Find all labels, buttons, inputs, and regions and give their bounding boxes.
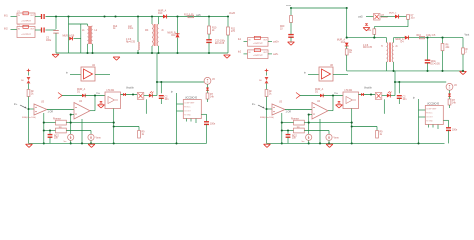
wire — [374, 26, 408, 28]
junction — [86, 52, 88, 54]
op-amp A (ch A) — [34, 104, 47, 115]
junction (ch A) — [113, 122, 115, 124]
source I2 (ch A) — [88, 134, 94, 140]
source V4 (ch B) — [446, 83, 453, 90]
junction — [346, 7, 348, 9]
wire sense (ch A) — [157, 81, 204, 83]
svg-text:OUT: OUT — [263, 52, 268, 54]
svg-text:7t: 7t — [381, 45, 383, 48]
svg-text:IN: IN — [249, 52, 251, 54]
svg-text:MUR_C: MUR_C — [389, 13, 397, 15]
wire (ch B) — [304, 122, 351, 124]
svg-text:2t: 2t — [162, 29, 164, 32]
wire (ch B) — [448, 120, 450, 127]
junction (ch B) — [287, 129, 289, 131]
capacitor C10 — [206, 40, 212, 43]
svg-text:out5-: out5- — [273, 53, 279, 56]
wire (ch A) — [28, 83, 30, 89]
wire — [158, 46, 160, 53]
connector J4 — [248, 49, 269, 59]
wire (ch B) — [351, 109, 353, 144]
diode D6 (ch A) — [27, 77, 31, 83]
svg-text:1 OR: 1 OR — [286, 111, 292, 113]
svg-text:COMP VREF: COMP VREF — [184, 103, 194, 105]
wire rail3 — [347, 70, 463, 72]
op-amp B (ch B) — [312, 103, 328, 120]
svg-text:in: in — [304, 73, 307, 75]
zener D12 — [365, 23, 368, 25]
wire (ch A) — [90, 140, 92, 143]
wire (ch B) — [328, 131, 330, 135]
wire (ch B) — [449, 96, 451, 99]
wire — [87, 44, 89, 53]
wire (ch B) — [323, 95, 343, 97]
wire (ch A) — [206, 124, 208, 143]
wire (ch B) — [308, 115, 310, 123]
wire (ch B) — [285, 109, 312, 111]
wire — [74, 38, 81, 40]
wire — [399, 16, 407, 18]
IC pin stub (ch A) — [186, 119, 188, 122]
wire (ch B) — [308, 140, 310, 143]
svg-text:U4: U4 — [317, 101, 321, 103]
junction (ch A) — [156, 81, 158, 83]
wire (ch B) — [398, 82, 400, 93]
svg-text:Vout/ok: Vout/ok — [126, 87, 135, 90]
wire (ch A) — [121, 94, 138, 96]
svg-text:100n: 100n — [210, 124, 216, 126]
wire (ch A) — [156, 82, 158, 96]
junction — [157, 52, 159, 54]
wire bottom rail (ch A) — [29, 142, 207, 144]
wire (ch A) — [70, 115, 72, 123]
svg-text:CS OUT: CS OUT — [426, 117, 432, 119]
svg-text:1k: 1k — [113, 28, 116, 30]
wire (ch A) — [70, 140, 72, 143]
wire (ch A) — [152, 95, 157, 97]
ground — [288, 42, 295, 45]
wire — [347, 37, 387, 39]
svg-text:FB VCC: FB VCC — [426, 113, 433, 115]
svg-text:1k: 1k — [142, 134, 145, 136]
junction — [103, 15, 105, 17]
junction (ch B) — [351, 125, 353, 127]
svg-text:RT GND: RT GND — [426, 121, 433, 123]
wire — [346, 55, 348, 71]
zener D2 (ch A) — [99, 101, 102, 103]
wire (ch A) — [207, 90, 209, 93]
wire (ch A) — [28, 97, 30, 144]
svg-text:2t: 2t — [396, 45, 398, 48]
wire bottom rail — [56, 52, 228, 54]
svg-text:10n: 10n — [403, 99, 408, 101]
wire (ch A) — [206, 114, 208, 121]
junction — [208, 52, 210, 54]
diode D3 (ch A) — [123, 93, 126, 96]
connector J2 — [17, 25, 35, 37]
wire — [69, 23, 88, 25]
IC pin stub (ch A) — [177, 103, 184, 105]
svg-text:1k: 1k — [349, 52, 352, 54]
wire — [46, 29, 57, 31]
wire rail2 — [394, 37, 464, 39]
transformer T1 — [88, 26, 93, 44]
svg-text:jn: jn — [170, 91, 174, 93]
IC U1 (ch B) — [425, 106, 443, 125]
wire (ch A) — [66, 130, 91, 132]
ground — [224, 55, 231, 58]
wire — [290, 37, 292, 41]
ground (ch B) — [326, 144, 333, 147]
svg-text:U4: U4 — [79, 101, 83, 103]
svg-text:Vsns: Vsns — [334, 138, 340, 140]
junction (ch B) — [265, 108, 267, 110]
wire (ch A) — [28, 72, 30, 75]
svg-text:V2: V2 — [454, 85, 458, 87]
junction — [441, 37, 443, 39]
wire — [80, 24, 82, 53]
LED arrows (ch A) — [149, 91, 154, 97]
svg-text:IN: IN — [249, 40, 251, 42]
wire — [407, 19, 409, 26]
resistor Rs1 (ch A) — [56, 120, 67, 125]
wire (ch B) — [267, 108, 273, 110]
svg-text:D6: D6 — [21, 80, 25, 82]
IC pin stub (ch B) — [432, 125, 434, 128]
wire (ch B) — [282, 130, 294, 132]
IC pin stub (ch A) — [195, 119, 197, 124]
svg-text:IN: IN — [18, 15, 20, 17]
svg-text:D4: D4 — [401, 42, 405, 44]
svg-text:SINE(0 5m 100k): SINE(0 5m 100k) — [260, 117, 274, 119]
resistor R10 — [208, 26, 211, 34]
wire — [427, 63, 429, 71]
wire (ch A) — [70, 123, 72, 135]
wire (ch B) — [308, 123, 310, 135]
svg-text:10k: 10k — [54, 138, 59, 140]
junction — [176, 52, 178, 54]
optocoupler U7 — [374, 14, 381, 21]
junction — [137, 15, 139, 17]
junction — [91, 52, 93, 54]
wire — [268, 41, 272, 43]
svg-text:10k: 10k — [292, 138, 297, 140]
IC out stub (ch A) — [201, 113, 206, 115]
wire — [227, 35, 229, 53]
resistor Rs2 (ch A) — [56, 128, 67, 133]
connector J3 — [248, 36, 269, 46]
svg-text:L1: L1 — [82, 30, 85, 32]
svg-text:0.3m: 0.3m — [128, 28, 133, 30]
junction (ch A) — [90, 142, 92, 144]
wire (ch A) — [207, 84, 209, 87]
junction (ch B) — [328, 142, 330, 144]
wire — [177, 38, 179, 53]
op-amp B (ch A) — [74, 103, 90, 120]
svg-text:+OUTPUT: +OUTPUT — [21, 21, 31, 23]
svg-text:V2: V2 — [212, 79, 216, 81]
svg-text:+OUTPUT: +OUTPUT — [253, 55, 263, 57]
diode D11 — [175, 34, 179, 38]
junction (ch A) — [70, 114, 72, 116]
svg-text:LT1431: LT1431 — [107, 90, 115, 92]
zener D2 (ch B) — [337, 101, 340, 103]
IC out stub (ch B) — [443, 119, 448, 121]
svg-text:Vout: Vout — [465, 33, 470, 36]
resistor R9 (ch B) — [376, 131, 379, 139]
svg-text:1 OR: 1 OR — [48, 111, 54, 113]
wire sense (ch B) — [395, 81, 446, 83]
junction (ch A) — [70, 122, 72, 124]
wire — [244, 53, 248, 55]
junction — [208, 15, 210, 17]
junction (ch A) — [113, 125, 115, 127]
wire (ch B) — [328, 110, 333, 112]
wire (ch A) — [44, 130, 56, 132]
resistor R16 — [420, 36, 425, 38]
svg-text:D6: D6 — [259, 80, 263, 82]
wire (ch B) — [304, 130, 329, 132]
wire — [333, 74, 348, 76]
svg-text:14k: 14k — [452, 102, 457, 104]
svg-text:L2: L2 — [95, 30, 98, 32]
junction — [176, 15, 178, 17]
svg-text:2k: 2k — [212, 30, 215, 32]
wire — [208, 34, 210, 40]
svg-text:100u: 100u — [46, 40, 52, 42]
IC pin stub (ch B) — [437, 125, 439, 130]
ground — [460, 71, 467, 74]
wire — [208, 17, 210, 27]
junction — [373, 37, 375, 39]
svg-text:+24v: +24v — [286, 5, 292, 7]
svg-text:In+: In+ — [335, 93, 339, 95]
wire (ch B) — [382, 95, 387, 97]
wire — [158, 17, 160, 25]
diode D14 — [345, 43, 349, 46]
wire (ch B) — [281, 113, 283, 143]
wire (ch B) — [328, 140, 330, 143]
junction — [55, 15, 57, 17]
svg-text:D1: D1 — [315, 92, 319, 94]
junction (ch A) — [132, 93, 134, 95]
svg-text:5m: 5m — [302, 141, 305, 143]
junction — [441, 70, 443, 72]
inductor Lpri — [138, 42, 139, 50]
LED arrows (ch B) — [387, 91, 392, 97]
svg-text:In+: In+ — [14, 104, 18, 106]
svg-text:R2=0.35: R2=0.35 — [363, 47, 373, 49]
wire — [393, 38, 395, 43]
resistor R7 (ch B) — [448, 99, 451, 105]
resistor Rs1 (ch B) — [294, 120, 305, 125]
svg-text:tk1: tk1 — [238, 38, 242, 41]
wire (ch A) — [47, 109, 74, 111]
wire (ch B) — [332, 96, 334, 111]
wire — [427, 38, 429, 60]
junction (ch B) — [319, 142, 321, 144]
IC pin stub (ch B) — [419, 109, 426, 111]
IC pin stub (ch A) — [177, 110, 184, 112]
resistor R6 — [441, 44, 444, 51]
wire (ch B) — [300, 95, 320, 97]
wire (ch A) — [138, 127, 140, 131]
svg-text:+OUTPUT: +OUTPUT — [21, 34, 31, 36]
capacitor C5 (ch A) — [204, 122, 209, 125]
wire — [55, 33, 57, 53]
op-amp B gnd pin (ch B) — [319, 119, 321, 143]
capacitor C4 (ch B) — [397, 96, 402, 99]
wire (ch A) — [71, 114, 74, 116]
junction — [346, 37, 348, 39]
wire — [268, 53, 272, 55]
ground (ch A) — [98, 105, 105, 108]
svg-text:Vout/ok: Vout/ok — [364, 87, 373, 90]
wire — [156, 53, 158, 82]
svg-text:10n: 10n — [165, 99, 170, 101]
wire (ch B) — [287, 131, 289, 135]
wire — [92, 44, 94, 53]
svg-text:In+: In+ — [252, 104, 256, 106]
wire — [373, 34, 375, 37]
wire — [11, 29, 18, 31]
wire (ch A) — [94, 96, 96, 111]
junction (ch B) — [351, 142, 353, 144]
op-amp U6 — [319, 67, 333, 81]
junction — [227, 15, 229, 17]
junction (ch A) — [43, 122, 45, 124]
svg-text:out5: out5 — [358, 15, 363, 18]
svg-text:Vsns: Vsns — [96, 138, 102, 140]
svg-text:OUT: OUT — [30, 29, 35, 31]
diode D5 (ch B) — [448, 94, 451, 97]
svg-text:1k: 1k — [269, 93, 272, 95]
wire (ch A) — [29, 108, 35, 110]
resistor R14 — [407, 15, 410, 20]
IC pin stub (ch B) — [428, 125, 430, 128]
arrow out (ch B) — [296, 93, 300, 99]
junction (ch B) — [281, 129, 283, 131]
capacitor C11 — [288, 35, 294, 38]
junction (ch B) — [281, 142, 283, 144]
wire (ch A) — [145, 99, 147, 114]
resistor R18 — [345, 49, 348, 55]
svg-text:+OUTPUT: +OUTPUT — [253, 43, 263, 45]
wire (ch B) — [449, 105, 451, 108]
source I1 (ch B) — [306, 134, 312, 140]
junction (ch B) — [351, 122, 353, 124]
capacitor C8 (ch B) — [286, 135, 291, 138]
svg-text:EC=0.05: EC=0.05 — [431, 63, 441, 65]
ground (ch B) — [336, 105, 343, 108]
junction — [426, 70, 428, 72]
svg-text:COMP VREF: COMP VREF — [426, 109, 436, 111]
svg-text:D1: D1 — [77, 92, 81, 94]
junction (ch B) — [281, 122, 283, 124]
wire — [386, 62, 388, 71]
wire — [346, 8, 348, 38]
svg-text:jn: jn — [412, 97, 416, 99]
diode D6 (ch B) — [265, 77, 269, 83]
svg-text:2: 2 — [466, 51, 468, 53]
ground (ch A) — [26, 144, 33, 147]
ground — [363, 28, 370, 31]
wire — [151, 46, 153, 53]
IC U1 (ch A) — [183, 100, 201, 119]
svg-text:U3: U3 — [279, 102, 283, 104]
capacitor C3 — [53, 31, 59, 34]
wire (ch B) — [449, 90, 451, 93]
capacitor C2 — [42, 28, 45, 33]
wire — [442, 51, 444, 71]
svg-text:in: in — [66, 73, 69, 75]
svg-text:OUT: OUT — [263, 40, 268, 42]
resistor Rb2 (ch A) — [27, 90, 30, 97]
svg-text:C14y 0.5: C14y 0.5 — [426, 35, 436, 37]
diode D3 (ch B) — [361, 93, 364, 96]
svg-text:OUT: OUT — [30, 15, 35, 17]
resistor Rs2 (ch B) — [294, 128, 305, 133]
svg-text:FB VCC: FB VCC — [184, 107, 191, 109]
diode D13 — [395, 14, 399, 18]
wire (ch B) — [359, 94, 376, 96]
wire (ch A) — [160, 98, 162, 104]
wire (ch B) — [418, 99, 420, 143]
junction (ch B) — [332, 94, 334, 96]
wire (ch A) — [44, 122, 56, 124]
svg-text:EC=0.05: EC=0.05 — [215, 43, 225, 45]
wire (ch B) — [390, 95, 395, 97]
svg-text:10u: 10u — [411, 18, 416, 20]
diode D9 — [69, 37, 72, 41]
wire (ch B) — [282, 122, 294, 124]
junction (ch A) — [27, 108, 29, 110]
IC pin stub (ch A) — [190, 119, 192, 122]
wire — [373, 27, 375, 29]
flag +V (ch A) — [27, 69, 31, 73]
svg-text:100n: 100n — [452, 130, 458, 132]
capacitor C4 (ch A) — [159, 96, 164, 99]
diode D4 — [405, 36, 409, 40]
flag +V (ch B) — [265, 69, 269, 73]
svg-text:IN2: IN2 — [4, 29, 8, 31]
wire — [366, 16, 374, 18]
svg-text:PC817: PC817 — [381, 17, 389, 19]
junction (ch A) — [43, 142, 45, 144]
junction (ch B) — [308, 122, 310, 124]
capacitor C1 — [42, 14, 45, 19]
source I2 (ch B) — [326, 134, 332, 140]
svg-text:out5: out5 — [196, 14, 201, 17]
svg-text:IN1: IN1 — [4, 16, 8, 18]
wire — [87, 24, 89, 26]
wire (ch A) — [144, 95, 149, 97]
wire — [393, 62, 395, 71]
wire — [462, 54, 464, 71]
wire — [151, 17, 153, 25]
source I1 (ch A) — [68, 134, 74, 140]
wire (ch A) — [62, 95, 82, 97]
optocoupler U6 (ch A) — [137, 93, 144, 100]
resistor R13 — [290, 16, 293, 23]
junction (ch B) — [417, 142, 419, 144]
svg-text:1k: 1k — [380, 134, 383, 136]
junction (ch A) — [81, 142, 83, 144]
svg-text:Rs: Rs — [368, 30, 372, 32]
wire bottom rail (ch B) — [267, 142, 445, 144]
wire (ch B) — [352, 126, 377, 128]
wire — [177, 17, 179, 34]
